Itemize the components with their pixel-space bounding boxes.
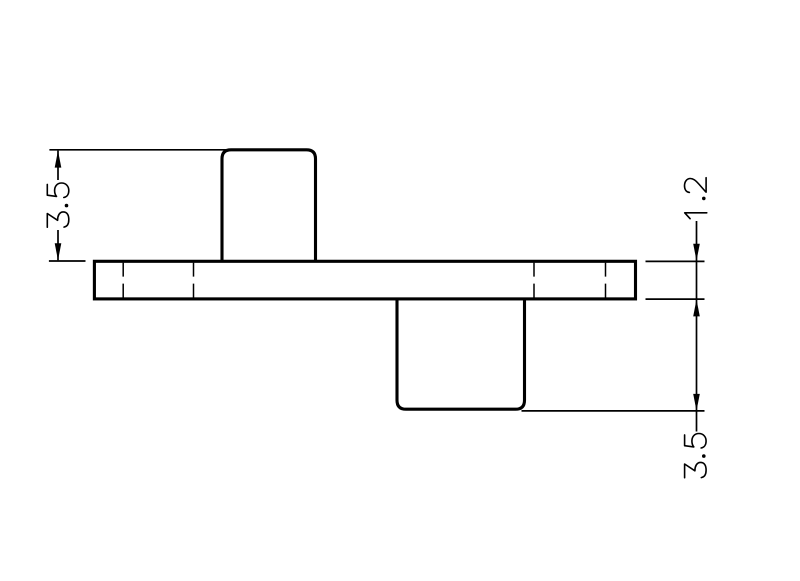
hidden line 2	[193, 263, 195, 298]
bottom tab outline	[397, 299, 525, 409]
extension line right lower (plate bottom datum)	[646, 298, 705, 300]
extension line top-left (3.5 upper datum)	[49, 149, 232, 151]
arrowhead right down (3.5 bottom)	[693, 394, 700, 411]
dimension text 3.5 left	[47, 183, 69, 227]
extension line bottom (lower tab bottom datum)	[522, 410, 705, 412]
dimension line right (1.2 and 3.5)	[696, 221, 698, 432]
hidden line 3	[533, 263, 535, 298]
hidden line 1	[122, 263, 124, 298]
dimension text 1.2 right	[685, 178, 707, 219]
top tab outline	[222, 150, 316, 261]
arrowhead left down (3.5)	[55, 243, 62, 260]
extension line left (plate top datum)	[49, 260, 86, 262]
dimension line left 3.5 lower segment	[57, 230, 59, 260]
arrowhead right up (1.2/3.5 shared at plate bottom)	[693, 299, 700, 316]
arrowhead right down (1.2 top)	[693, 244, 700, 261]
dimension text 3.5 bottom right	[685, 434, 707, 478]
dimension line left 3.5 upper segment	[57, 151, 59, 180]
plate outline	[94, 261, 635, 299]
extension line right upper (plate top datum)	[646, 260, 705, 262]
arrowhead left up (3.5)	[55, 151, 62, 168]
hidden line 4	[605, 263, 607, 298]
